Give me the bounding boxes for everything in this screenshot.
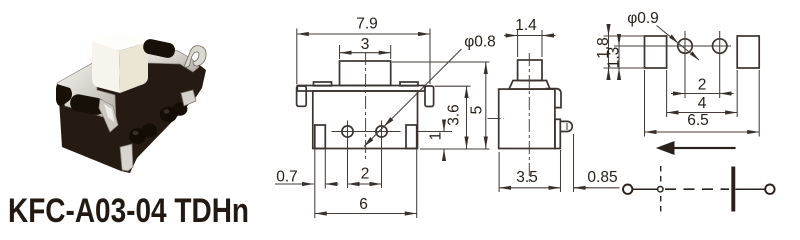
dim 2 top line, outside arrows — [685, 93, 720, 95]
side horizontal centerline stub — [488, 118, 505, 120]
contact bump 4 — [173, 102, 188, 116]
hole centerline left extended — [347, 121, 349, 189]
schematic direction arrow — [656, 141, 675, 155]
svg-text:6.5: 6.5 — [687, 112, 709, 129]
svg-text:5: 5 — [469, 106, 486, 115]
wire right — [735, 188, 765, 190]
svg-text:4: 4 — [698, 95, 707, 112]
svg-text:3.5: 3.5 — [516, 169, 538, 186]
leader phi0.8 arrow upper — [384, 117, 393, 126]
front flange left tab — [297, 86, 307, 106]
dim 1.3 line, outside arrows — [618, 46, 620, 68]
contact bump 3 — [160, 107, 177, 123]
dim 1.4 extension lines — [517, 30, 519, 57]
svg-text:φ0.9: φ0.9 — [627, 10, 659, 27]
leader phi0.8 arrow lower — [364, 137, 373, 146]
switch body dark plastic silhouette — [58, 42, 206, 173]
top view hole left — [678, 39, 692, 53]
svg-text:3: 3 — [361, 36, 370, 53]
svg-text:1.3: 1.3 — [606, 47, 623, 69]
bump highlights — [133, 131, 139, 135]
leader phi0.8 line — [364, 49, 462, 147]
dim 3.6 top extension — [435, 85, 471, 87]
metal leg bottom center — [120, 144, 133, 171]
svg-text:6: 6 — [359, 196, 368, 213]
svg-text:7.9: 7.9 — [356, 16, 378, 33]
corner pad front left — [69, 93, 107, 116]
horizontal centerline through holes — [332, 131, 401, 133]
front flange bar — [297, 86, 424, 92]
side latch tab — [560, 121, 572, 131]
dim 3.6 line — [466, 86, 468, 148]
side collar — [509, 81, 550, 90]
side body — [499, 89, 555, 148]
dim 3 line — [340, 52, 391, 54]
dim 0.7 arrows — [275, 183, 314, 185]
dim 1.4 line and outside arrows — [518, 35, 542, 37]
dim 1 extension at hole level — [418, 131, 453, 133]
contact hole right — [376, 126, 387, 137]
svg-text:2: 2 — [698, 77, 707, 94]
metal flap front left corner — [99, 99, 118, 132]
dim 5 top extension — [392, 61, 490, 63]
dim 6 line — [315, 213, 417, 215]
front flange right bump — [400, 82, 418, 86]
dim 0.85 line — [574, 187, 620, 189]
actuator white button top face — [92, 32, 148, 51]
svg-text:3.6: 3.6 — [446, 104, 463, 126]
actuator white button right face — [119, 42, 148, 93]
metal pin far right — [181, 90, 196, 106]
corner pad far left — [56, 84, 72, 106]
svg-text:2: 2 — [361, 166, 370, 183]
contact bump 1 — [129, 128, 146, 144]
hole centerline right extended — [381, 121, 383, 189]
svg-text:φ0.8: φ0.8 — [464, 34, 496, 51]
front body — [313, 91, 418, 149]
corner pad top right — [142, 38, 176, 59]
actuator white button front face — [92, 41, 120, 93]
vertical centerline — [365, 52, 367, 160]
metal flap highlight — [104, 104, 114, 122]
side latch tab inner line — [566, 123, 568, 130]
side hook top right — [545, 89, 561, 108]
vertical centerline right hole — [719, 31, 721, 98]
schematic pole circle — [658, 187, 663, 192]
side stem — [518, 60, 542, 81]
top view right pad — [737, 36, 759, 68]
dim 4 extensions — [666, 70, 668, 117]
dim 3 extension lines — [339, 45, 341, 59]
wire left — [632, 188, 657, 190]
metal hook right — [184, 46, 206, 68]
dim 1.8 line, outside arrows — [608, 36, 610, 68]
dim 3.5 line — [499, 187, 560, 189]
phi0.9 leader — [657, 26, 700, 61]
schematic contact bar — [731, 167, 735, 212]
dim 7.9 extension lines — [296, 29, 298, 85]
dim 1.8 extensions — [604, 35, 645, 37]
schematic dashed horizontal — [665, 188, 729, 190]
front flange left bump — [314, 82, 332, 86]
dim 3.5 extension lines — [498, 152, 500, 192]
side vertical centerline — [528, 53, 530, 182]
bottom extension shared — [420, 148, 490, 150]
svg-text:0.7: 0.7 — [276, 169, 298, 186]
schematic dashed vertical — [660, 166, 662, 213]
front flange right tab — [425, 86, 434, 107]
metal plate left wedge — [57, 61, 116, 121]
schematic right terminal — [765, 185, 774, 194]
front right leg — [406, 125, 417, 149]
vertical centerline left hole — [684, 31, 686, 98]
front actuator — [340, 61, 391, 86]
extension lines below body — [314, 149, 316, 219]
dim 5 line — [485, 62, 487, 149]
svg-text:0.85: 0.85 — [587, 169, 617, 186]
svg-text:KFC-A03-04 TDHn: KFC-A03-04 TDHn — [8, 192, 249, 228]
side latch plate — [555, 119, 560, 148]
svg-text:1: 1 — [428, 132, 445, 141]
dim 6.5 line — [645, 131, 760, 133]
svg-text:1.4: 1.4 — [515, 17, 537, 34]
phi0.9 arrow upper — [669, 34, 678, 43]
top view hole right — [713, 39, 727, 53]
front left leg — [315, 125, 326, 149]
horizontal centerline — [614, 45, 731, 47]
dim 0.85 extension — [573, 134, 575, 192]
dim 4 line — [667, 112, 738, 114]
top view left pad — [645, 36, 667, 68]
dim 2 line front — [348, 183, 382, 185]
contact hole left — [342, 126, 353, 137]
metal plate right strip — [139, 45, 199, 72]
contact bump 2 — [142, 124, 157, 138]
schematic left terminal — [623, 185, 632, 194]
phi0.9 arrow lower — [690, 51, 699, 60]
dim 7.9 line — [297, 33, 430, 35]
dim 6.5 extensions — [644, 70, 646, 137]
dim 1 arrows outside — [443, 120, 445, 132]
